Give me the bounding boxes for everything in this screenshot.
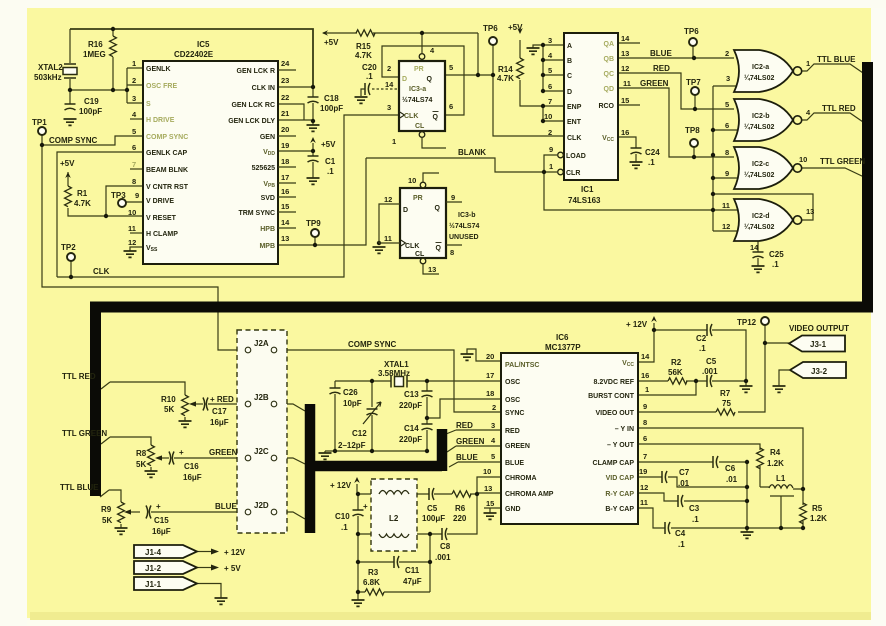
svg-text:1: 1: [132, 59, 136, 68]
svg-text:12: 12: [621, 64, 629, 73]
svg-text:J1-2: J1-2: [145, 564, 162, 573]
wire: L2 bottom winding path through C8: [358, 494, 477, 534]
IC1 box 74LS163: [564, 33, 618, 180]
wire: J2 row links: [251, 350, 271, 512]
svg-text:8.2VDC REF: 8.2VDC REF: [594, 379, 635, 386]
arrow: R8 wiper: [155, 455, 162, 460]
svg-text:IC2-d: IC2-d: [752, 213, 770, 220]
labels: IC5: [128, 40, 296, 253]
wire: R1 bottom to IC5 pins 8,10: [68, 186, 143, 216]
wire: IC1 A B C D tie chain to ground: [533, 45, 564, 91]
svg-text:12: 12: [384, 195, 392, 204]
svg-text:220pF: 220pF: [399, 401, 422, 410]
svg-text:BLUE: BLUE: [456, 453, 478, 462]
svg-text:4.7K: 4.7K: [74, 199, 91, 208]
capacitor C1: [308, 156, 319, 162]
svg-text:COMP SYNC: COMP SYNC: [348, 340, 397, 349]
labels: NOR gate area: [640, 27, 865, 269]
arrow: +5V feed at R1: [65, 172, 71, 178]
svg-text:R7: R7: [720, 389, 731, 398]
svg-text:CL: CL: [415, 251, 425, 258]
svg-text:18: 18: [281, 157, 289, 166]
svg-text:+5V: +5V: [321, 140, 336, 149]
wire: right bypass ground bus: [746, 462, 748, 532]
svg-text:+ RED: + RED: [210, 395, 234, 404]
wire: +5V arrow stem to VDD node: [312, 143, 314, 151]
svg-text:1MEG: 1MEG: [83, 50, 106, 59]
node: junction dots bottom section: [333, 328, 805, 594]
wire: IC5 pin 11 stub: [130, 232, 143, 234]
capacitor C7: [662, 471, 667, 483]
svg-text:J2D: J2D: [254, 501, 269, 510]
svg-text:5: 5: [548, 66, 552, 75]
wire: C26 leads: [334, 381, 336, 451]
ground below R8: [145, 471, 158, 477]
wire: R16 leads: [112, 29, 114, 90]
svg-text:C18: C18: [324, 94, 339, 103]
svg-text:VID CAP: VID CAP: [606, 475, 635, 482]
svg-text:+ 5V: + 5V: [224, 564, 241, 573]
wire: R8 wiper arrow lead: [162, 457, 169, 459]
svg-text:23: 23: [281, 76, 289, 85]
svg-text:TP6: TP6: [684, 27, 699, 36]
svg-text:BLUE: BLUE: [215, 502, 237, 511]
svg-text:GEN: GEN: [260, 134, 275, 141]
wire: IC3-a Q pin 5 to TP6 node: [445, 74, 493, 76]
svg-text:C12: C12: [352, 429, 367, 438]
wire: IC6 pin 15 GND stub: [484, 508, 501, 513]
svg-text:H DRIVE: H DRIVE: [146, 117, 175, 124]
capacitor C16: [169, 452, 174, 465]
capacitor C11: [394, 556, 399, 568]
wire: +12V stem left: [356, 484, 358, 494]
svg-text:13: 13: [484, 484, 492, 493]
svg-text:GEN LCK R: GEN LCK R: [237, 68, 276, 75]
svg-text:.01: .01: [678, 479, 690, 488]
wire: IC6 pin 20 to ground elbow: [467, 349, 501, 361]
svg-text:D: D: [567, 89, 572, 96]
svg-text:R9: R9: [101, 505, 112, 514]
ground below C19: [64, 119, 77, 125]
svg-text:J1-4: J1-4: [145, 548, 162, 557]
svg-text:+: +: [179, 448, 184, 457]
wire: IC5 pin 23 stub: [278, 86, 313, 88]
svg-text:TP2: TP2: [61, 243, 76, 252]
capacitor C2: [707, 324, 712, 336]
svg-text:QC: QC: [604, 71, 615, 78]
wire: TTL BLUE channel to R9 and C15 to J2D: [100, 490, 244, 528]
wire: IC5 pin 19 VDD stub: [278, 150, 313, 152]
svg-text:.1: .1: [648, 158, 655, 167]
ground below C20: [355, 97, 368, 103]
wire: GREEN net IC1 pin11 to IC2-c: [618, 88, 734, 157]
svg-text:6: 6: [548, 82, 552, 91]
arrow: +12V feed at IC6: [651, 316, 657, 322]
wire: TP9 stem: [314, 237, 316, 245]
svg-text:PR: PR: [414, 66, 424, 73]
svg-text:47μF: 47μF: [403, 577, 422, 586]
node: junction dots top section: [40, 27, 715, 279]
svg-text:.001: .001: [435, 553, 451, 562]
resistor R9: [118, 502, 125, 523]
capacitor C5 ref bypass: [707, 375, 712, 387]
svg-text:VIDEO OUTPUT: VIDEO OUTPUT: [789, 324, 849, 333]
wire: IC5 pin 13 MPB to BLANK riser: [278, 158, 366, 245]
svg-text:H CLAMP: H CLAMP: [146, 231, 178, 238]
svg-text:VIDEO OUT: VIDEO OUT: [595, 410, 634, 417]
ground at IC6 pin 20: [461, 354, 474, 360]
capacitor C13: [422, 391, 433, 397]
svg-text:12: 12: [640, 483, 648, 492]
svg-text:2: 2: [132, 76, 136, 85]
wire: NOR second-input tie chain: [713, 86, 737, 231]
wire: VID CAP pin 19 through C7: [638, 477, 747, 487]
svg-text:L1: L1: [776, 474, 786, 483]
svg-text:D: D: [402, 76, 407, 83]
gate IC2-a output bubble: [793, 67, 801, 75]
svg-text:PAL/NTSC: PAL/NTSC: [505, 362, 539, 369]
wire: R2 C5 line from pin 16: [638, 380, 746, 382]
connector tag J3-2: [790, 362, 846, 378]
ground at oscillator rail: [319, 453, 332, 459]
inductor L2 top winding: [379, 491, 409, 495]
svg-text:1.2K: 1.2K: [810, 514, 827, 523]
svg-text:C24: C24: [645, 148, 660, 157]
wire: BLUE tag into IC6 pin 5: [449, 462, 501, 467]
svg-text:.1: .1: [327, 167, 334, 176]
wire: J2C right into cable: [277, 458, 305, 464]
svg-text:16: 16: [621, 128, 629, 137]
svg-text:9: 9: [725, 169, 729, 178]
gate IC2-b output bubble: [793, 116, 801, 124]
capacitor C6: [713, 456, 718, 468]
svg-text:15: 15: [621, 96, 629, 105]
svg-text:14: 14: [281, 218, 290, 227]
capacitor C15: [146, 506, 151, 519]
capacitor C17: [203, 398, 208, 411]
wire: TP6 right stem: [692, 46, 694, 58]
IC3-a box: [399, 61, 445, 131]
svg-text:TP1: TP1: [32, 118, 47, 127]
wire: IC3-a D/Q feedback loop: [382, 46, 464, 115]
svg-text:C10: C10: [335, 512, 350, 521]
pin bubble: IC1 LOAD: [558, 152, 564, 158]
svg-text:525625: 525625: [252, 165, 275, 172]
svg-text:RED: RED: [653, 64, 670, 73]
svg-text:16μF: 16μF: [152, 527, 171, 536]
svg-text:20: 20: [281, 125, 289, 134]
svg-text:100pF: 100pF: [79, 107, 102, 116]
svg-text:9: 9: [135, 191, 139, 200]
svg-text:5: 5: [449, 63, 453, 72]
connector tag J1-4: [134, 545, 197, 558]
svg-text:11: 11: [640, 498, 648, 507]
wire: R14 to ENP ENT pins: [520, 80, 564, 121]
svg-text:TP6: TP6: [483, 24, 498, 33]
svg-text:TTL BLUE: TTL BLUE: [60, 483, 99, 492]
svg-text:7: 7: [132, 160, 136, 169]
svg-text:8: 8: [450, 248, 454, 257]
svg-text:16μF: 16μF: [210, 418, 229, 427]
capacitor C5 chroma coupling: [429, 488, 434, 500]
wire: TP6 stem and CLK feed to IC1 pin 2: [493, 45, 564, 136]
wire: J2B right into cable: [277, 404, 305, 411]
IC3-b box: [400, 188, 446, 258]
wire: TP12 stem: [764, 325, 766, 343]
svg-text:100pF: 100pF: [320, 104, 343, 113]
ground below C25: [752, 266, 765, 272]
svg-text:.1: .1: [366, 72, 373, 81]
test point TP3: [118, 199, 126, 207]
wire: L1 leads and centre tap: [760, 487, 803, 528]
wire: RED tag into IC6 pin 3: [446, 430, 501, 434]
svg-text:C7: C7: [679, 468, 690, 477]
svg-text:6: 6: [725, 121, 729, 130]
wire: +5V stem into R14: [519, 40, 521, 58]
svg-text:GREEN: GREEN: [456, 437, 485, 446]
wire: J1-1 to ground: [197, 584, 221, 599]
svg-text:TP3: TP3: [111, 191, 126, 200]
test point TP12: [761, 317, 769, 325]
svg-text:A: A: [567, 43, 572, 50]
svg-text:½74LS74: ½74LS74: [402, 96, 432, 104]
wire: IC3-b Q and Qbar stubs: [446, 202, 462, 245]
svg-text:IC2-b: IC2-b: [752, 113, 770, 120]
clk triangle IC3-a: [399, 112, 405, 119]
svg-text:+5V: +5V: [508, 23, 523, 32]
capacitor C10: [353, 510, 364, 516]
wire: C13 leads and elbow to pin 18: [427, 381, 501, 418]
wire: IC3-b D pin 12 and CLK pin 11: [379, 204, 400, 243]
resistor R3: [365, 589, 384, 595]
wire: CLAMP CAP pin 7 through C6: [638, 461, 747, 463]
svg-text:R4: R4: [770, 448, 781, 457]
capacitor C12 trimmer: [367, 409, 378, 415]
arrow: +5V feed at R15 rail: [322, 30, 328, 36]
wire: +5V rail through R15 to IC3-a PR: [323, 33, 478, 53]
svg-text:V RESET: V RESET: [146, 215, 177, 222]
svg-text:CLK: CLK: [404, 113, 418, 120]
wire: VIDEO OUT pin 9 through R7 up to J3-1: [638, 343, 789, 412]
svg-text:IC2-c: IC2-c: [752, 161, 769, 168]
svg-text:10: 10: [408, 176, 416, 185]
resistor R1: [65, 186, 72, 207]
svg-text:IC3-b: IC3-b: [458, 212, 476, 219]
wire: IC5 pin 6 loop to CLK rail: [57, 152, 143, 277]
labels: output area: [626, 318, 849, 549]
svg-text:TP8: TP8: [685, 126, 700, 135]
svg-text:10: 10: [799, 155, 807, 164]
svg-text:CLK IN: CLK IN: [252, 85, 275, 92]
svg-text:C13: C13: [404, 390, 419, 399]
L2 shield dashed box: [371, 479, 417, 551]
svg-text:10: 10: [128, 208, 136, 217]
svg-text:R14: R14: [498, 65, 513, 74]
svg-text:QA: QA: [604, 41, 615, 48]
svg-text:BURST CONT: BURST CONT: [588, 393, 635, 400]
wire: J3-2 to ground: [779, 370, 789, 386]
wire: C20 dashed lead to pin 14: [372, 88, 398, 90]
IC5 right stubs: [278, 70, 296, 228]
svg-text:+5V: +5V: [324, 38, 339, 47]
svg-text:16: 16: [281, 187, 289, 196]
wire: IC3-b CL stub: [423, 264, 439, 274]
wire: IC2-d pin 14 to C25 ground: [757, 241, 759, 266]
wire: +5V feed to R1: [67, 172, 69, 186]
svg-text:11: 11: [722, 201, 730, 210]
wire: IC5 pin 4 stub: [130, 118, 143, 120]
svg-text:R16: R16: [88, 40, 103, 49]
gate IC2-d: [734, 199, 793, 241]
svg-text:220: 220: [453, 514, 467, 523]
connector tag J1-2: [134, 561, 197, 574]
svg-text:R8: R8: [136, 449, 147, 458]
svg-text:COMP SYNC: COMP SYNC: [146, 134, 188, 141]
svg-text:SVD: SVD: [261, 195, 275, 202]
crystal XTAL2: [63, 64, 77, 78]
svg-text:6: 6: [132, 143, 136, 152]
svg-text:5K: 5K: [136, 460, 146, 469]
svg-text:TTL RED: TTL RED: [822, 104, 856, 113]
wire: BLANK net to IC1 LOAD/CLR: [366, 155, 557, 172]
svg-text:GREEN: GREEN: [640, 79, 669, 88]
svg-text:2: 2: [387, 64, 391, 73]
resistor R4: [757, 448, 764, 469]
resistor R16: [110, 36, 117, 57]
capacitor C14: [422, 424, 433, 430]
capacitor C25: [753, 252, 764, 258]
wire: IC1 pin 15 stub: [618, 104, 640, 106]
gate IC2-d output bubble: [793, 216, 801, 224]
wire: XTAL1 oscillator rail: [335, 380, 501, 382]
svg-text:MPB: MPB: [259, 243, 275, 250]
wire: IC6 pin 1 to R2/C5 node: [638, 381, 696, 395]
svg-text:C25: C25: [769, 250, 784, 259]
svg-text:C8: C8: [440, 542, 451, 551]
resistor R14: [517, 58, 524, 79]
wire: J1-4 arrow lead: [197, 551, 211, 553]
svg-text:4.7K: 4.7K: [355, 51, 372, 60]
svg-text:RCO: RCO: [598, 103, 614, 110]
ground below R9: [115, 528, 128, 534]
svg-text:R5: R5: [812, 504, 823, 513]
gate IC2-c: [734, 147, 793, 189]
svg-text:2–12pF: 2–12pF: [338, 441, 366, 450]
svg-text:56K: 56K: [668, 368, 683, 377]
svg-text:5K: 5K: [102, 516, 112, 525]
arrow: +5V feed at R14: [517, 28, 523, 34]
capacitor C3: [678, 495, 683, 507]
pin bubble: IC3-b PR pin 10: [420, 182, 426, 188]
svg-text:L2: L2: [389, 514, 399, 523]
svg-text:C4: C4: [675, 529, 686, 538]
capacitor C19: [65, 104, 76, 110]
svg-text:VCC: VCC: [602, 135, 614, 143]
clk triangle IC3-b: [400, 240, 406, 247]
svg-text:.1: .1: [772, 260, 779, 269]
svg-text:16: 16: [641, 371, 649, 380]
svg-text:+ 12V: + 12V: [224, 548, 246, 557]
connector tag J3-1: [789, 336, 845, 352]
svg-text:B-Y CAP: B-Y CAP: [605, 506, 634, 513]
pin bubble: IC3-b CL pin 13: [420, 258, 426, 264]
svg-text:V CNTR RST: V CNTR RST: [146, 184, 189, 191]
svg-text:3: 3: [132, 94, 136, 103]
wire: IC3-a CL stub: [422, 138, 446, 148]
ground below C5 bypass: [740, 386, 753, 392]
resistor R10: [182, 395, 189, 416]
resistor R8: [148, 445, 155, 466]
test point TP6 right: [689, 38, 697, 46]
svg-text:9: 9: [451, 193, 455, 202]
svg-text:C6: C6: [725, 464, 736, 473]
wire: TTL RED channel to R10 and C17 to J2B: [101, 382, 244, 421]
resistor R7: [716, 409, 735, 415]
svg-text:SYNC: SYNC: [505, 410, 524, 417]
resistor R5: [800, 503, 807, 524]
svg-text:14: 14: [750, 243, 759, 252]
arrow: J1-2 +5V: [211, 565, 219, 571]
wire: -Y IN pin 8 line: [638, 428, 803, 489]
svg-text:13: 13: [281, 234, 289, 243]
wire: -Y OUT pin 6 to R4: [638, 444, 760, 487]
arrow: +12V feed at C10: [354, 477, 360, 483]
wire: COMP SYNC from TP1 to IC5 pin 5: [42, 136, 143, 145]
svg-text:R-Y CAP: R-Y CAP: [605, 491, 634, 498]
svg-text:¼74LS02: ¼74LS02: [744, 223, 774, 231]
capacitor C8: [442, 528, 447, 540]
svg-text:¼74LS02: ¼74LS02: [744, 123, 774, 131]
svg-text:.001: .001: [702, 367, 718, 376]
cable: heavy screened lead J2 to IC6 RGB: [305, 404, 442, 533]
svg-text:C3: C3: [689, 504, 700, 513]
svg-text:R2: R2: [671, 358, 682, 367]
wire: TP3 to IC5 pin 9: [126, 201, 143, 203]
svg-text:+5V: +5V: [60, 159, 75, 168]
svg-text:½74LS74: ½74LS74: [449, 222, 479, 230]
wire: IC5 pin 7 stub: [130, 168, 143, 170]
svg-text:J1-1: J1-1: [145, 580, 162, 589]
svg-text:15: 15: [486, 499, 494, 508]
svg-text:TTL BLUE: TTL BLUE: [817, 55, 856, 64]
svg-text:10pF: 10pF: [343, 399, 362, 408]
svg-text:– Y IN: – Y IN: [615, 426, 634, 433]
svg-text:20: 20: [486, 352, 494, 361]
svg-text:MC1377P: MC1377P: [545, 343, 581, 352]
svg-text:CLK: CLK: [405, 243, 419, 250]
svg-text:+: +: [363, 502, 368, 511]
test point TP6 left: [489, 37, 497, 45]
svg-text:19: 19: [281, 141, 289, 150]
wire: IC2-d output 13 feedback loop: [713, 194, 813, 220]
svg-text:11: 11: [384, 234, 392, 243]
ground below bypass bus: [741, 532, 754, 538]
wire: XTAL2 leads: [69, 29, 71, 104]
capacitor C24: [631, 148, 642, 154]
wire: R5 leads: [802, 489, 804, 528]
svg-text:3: 3: [491, 421, 495, 430]
svg-text:GEN LCK RC: GEN LCK RC: [231, 102, 275, 109]
svg-text:C26: C26: [343, 388, 358, 397]
svg-text:¼74LS02: ¼74LS02: [744, 171, 774, 179]
test point TP2: [67, 253, 75, 261]
svg-text:14: 14: [641, 352, 650, 361]
IC5 box CD22402E: [143, 61, 278, 264]
svg-text:UNUSED: UNUSED: [449, 234, 479, 241]
svg-text:15: 15: [281, 202, 289, 211]
labels: top-left oscillator: [32, 40, 126, 276]
svg-text:C16: C16: [184, 462, 199, 471]
